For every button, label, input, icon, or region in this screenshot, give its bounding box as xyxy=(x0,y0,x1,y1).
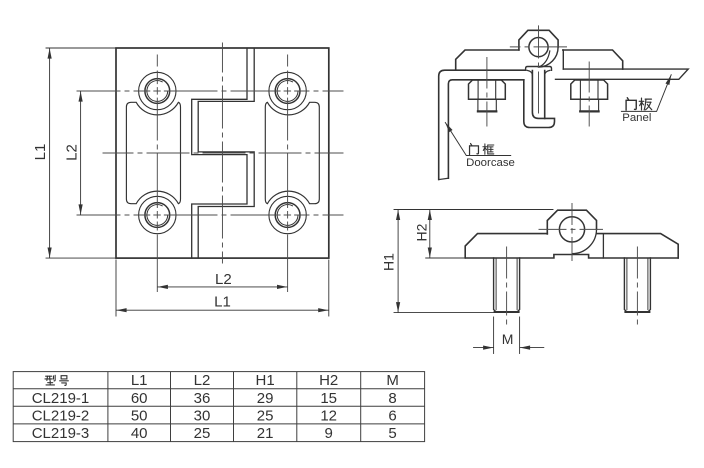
svg-text:21: 21 xyxy=(257,425,274,442)
table column lines xyxy=(108,372,361,442)
left stud bottom xyxy=(495,311,519,313)
right bolt thread stub xyxy=(580,99,598,111)
dimension M left arrow xyxy=(474,347,494,349)
svg-text:6: 6 xyxy=(388,407,396,424)
left bolt thread stub xyxy=(478,99,496,111)
centerline right stud xyxy=(636,247,638,324)
svg-text:Doorcase: Doorcase xyxy=(466,157,515,169)
centerline vertical middle xyxy=(221,43,223,263)
centerline vertical right hole column xyxy=(287,55,289,292)
table header xinghao CN xyxy=(45,375,55,385)
svg-text:L1: L1 xyxy=(32,144,49,161)
left bolt head facets xyxy=(478,80,496,99)
centerline pin vertical side xyxy=(571,204,573,261)
right leaf profile xyxy=(563,50,623,69)
right stud thread lines xyxy=(627,258,648,310)
svg-text:25: 25 xyxy=(257,407,274,424)
centerline left bolt xyxy=(486,58,488,127)
left stud xyxy=(494,258,520,312)
centerline right bolt xyxy=(588,62,590,126)
left stud thread lines xyxy=(496,258,517,310)
svg-text:8: 8 xyxy=(388,390,396,407)
hole bottom-left xyxy=(139,196,176,233)
bent leaf T-head xyxy=(526,67,552,71)
centerline left stud xyxy=(506,247,508,324)
svg-text:29: 29 xyxy=(257,390,274,407)
svg-text:25: 25 xyxy=(194,425,211,442)
hole top-left (3 concentric circles) xyxy=(139,72,176,109)
knuckle curl outer arc xyxy=(539,47,559,67)
centerline vertical left hole column xyxy=(156,55,158,292)
dimension L1 left xyxy=(49,48,51,257)
svg-text:L1: L1 xyxy=(214,293,231,310)
left bolt stub bottom xyxy=(478,110,496,112)
doorcase leader xyxy=(445,123,510,156)
label panel CN xyxy=(626,98,636,110)
svg-text:5: 5 xyxy=(388,425,396,442)
dimension L2 bottom xyxy=(158,286,288,288)
right bolt stub bottom xyxy=(580,110,598,112)
leaf seam edge xyxy=(602,234,604,258)
right leaf left edge xyxy=(562,50,564,69)
extension line M right xyxy=(519,317,521,354)
knuckle octagon top xyxy=(519,30,558,50)
svg-text:H2: H2 xyxy=(414,223,430,241)
svg-text:12: 12 xyxy=(320,407,337,424)
svg-text:CL219-2: CL219-2 xyxy=(32,407,90,424)
leaf separation cut: right leaf edge xyxy=(198,48,254,257)
right bolt head xyxy=(571,80,608,99)
table outer border xyxy=(13,372,424,442)
panel leader xyxy=(621,75,671,112)
doorframe angle inner xyxy=(448,80,523,178)
centerline pin horizontal xyxy=(510,46,566,48)
leaf bar bottom with notch xyxy=(466,255,678,259)
hole bottom-right xyxy=(269,196,306,233)
knuckle octagon side xyxy=(547,210,596,234)
hinge pin circle xyxy=(529,38,548,57)
svg-text:CL219-1: CL219-1 xyxy=(32,390,90,407)
label doorcase CN xyxy=(470,144,479,155)
dimension H2 xyxy=(429,210,431,258)
centerline horizontal top hole row xyxy=(77,90,343,92)
extension line H1 bottom xyxy=(394,312,495,314)
bent leaf outer J xyxy=(524,71,555,128)
extension line top-left xyxy=(46,47,116,49)
svg-text:H2: H2 xyxy=(319,372,338,389)
extension line H2 bottom xyxy=(426,257,465,259)
T-head flare fillets xyxy=(527,70,550,75)
svg-text:50: 50 xyxy=(131,407,148,424)
svg-text:L2: L2 xyxy=(215,271,232,288)
svg-text:L2: L2 xyxy=(194,372,211,389)
svg-text:30: 30 xyxy=(194,407,211,424)
centerline pin vertical xyxy=(538,26,540,113)
svg-text:CL219-3: CL219-3 xyxy=(32,425,90,442)
doorframe bottom break xyxy=(439,178,449,179)
dimension L1 bottom xyxy=(116,309,328,311)
panel strip xyxy=(556,69,689,79)
svg-text:H1: H1 xyxy=(381,253,397,271)
left leaf top profile xyxy=(456,50,519,70)
leaf bar outline left part xyxy=(465,234,547,258)
centerline horizontal bottom hole row xyxy=(77,214,343,216)
table row lines xyxy=(13,389,424,424)
svg-text:L1: L1 xyxy=(131,372,148,389)
right stud bottom xyxy=(625,311,649,313)
bent leaf inner J xyxy=(532,71,544,119)
svg-text:M: M xyxy=(386,372,399,389)
dimension H1 xyxy=(397,210,399,312)
right recess slot xyxy=(265,102,319,203)
svg-text:M: M xyxy=(502,331,514,347)
svg-text:40: 40 xyxy=(131,425,148,442)
right bolt head facets xyxy=(580,80,598,99)
extension line bottom-left xyxy=(46,257,116,259)
centerline horizontal middle xyxy=(103,152,343,154)
svg-text:60: 60 xyxy=(131,390,148,407)
extension line top (H1 H2) xyxy=(394,209,553,211)
left recess slot xyxy=(126,102,180,203)
svg-text:15: 15 xyxy=(320,390,337,407)
svg-text:36: 36 xyxy=(194,390,211,407)
svg-text:Panel: Panel xyxy=(622,112,651,124)
hinge plate outline xyxy=(116,48,329,258)
dimension L2 left xyxy=(80,91,82,214)
pin circle side xyxy=(559,217,584,242)
svg-text:H1: H1 xyxy=(256,372,275,389)
extension line bottom corner right xyxy=(328,260,330,316)
centerline pin horizontal side xyxy=(539,228,603,230)
knuckle curl side xyxy=(572,229,596,253)
svg-text:L2: L2 xyxy=(64,144,81,161)
leaf separation cut: left leaf edge xyxy=(192,48,247,257)
knuckle curl inner arc xyxy=(541,51,550,66)
leaf bar outline right part xyxy=(597,234,678,258)
dimension M right arrow xyxy=(520,347,544,349)
left bolt head xyxy=(469,80,506,99)
svg-text:9: 9 xyxy=(325,425,333,442)
extension line M left xyxy=(493,317,495,354)
hole top-right xyxy=(269,72,306,109)
extension line bottom corner left xyxy=(115,260,117,316)
doorframe angle outer xyxy=(439,70,526,179)
right stud xyxy=(624,258,650,312)
